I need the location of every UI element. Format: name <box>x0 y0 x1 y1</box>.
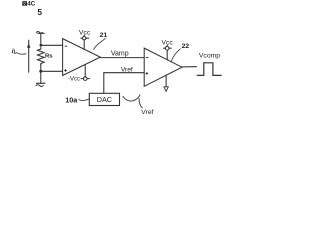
svg-text:5: 5 <box>38 8 43 17</box>
svg-text:4C: 4C <box>27 1 36 8</box>
svg-text:22: 22 <box>182 43 190 50</box>
svg-text:10a: 10a <box>65 95 78 104</box>
svg-text:Vcc: Vcc <box>162 40 174 47</box>
svg-text:21: 21 <box>100 32 108 39</box>
svg-text:Vcc: Vcc <box>79 30 91 37</box>
svg-text:DAC: DAC <box>97 95 112 104</box>
svg-text:Vref: Vref <box>141 109 153 116</box>
svg-text:-Vcc: -Vcc <box>68 77 80 83</box>
svg-text:Rs: Rs <box>45 54 53 60</box>
svg-text:Vamp: Vamp <box>111 50 129 57</box>
svg-text:Vref: Vref <box>121 67 133 74</box>
svg-text:Vcomp: Vcomp <box>199 52 220 59</box>
svg-text:iL: iL <box>12 48 17 55</box>
